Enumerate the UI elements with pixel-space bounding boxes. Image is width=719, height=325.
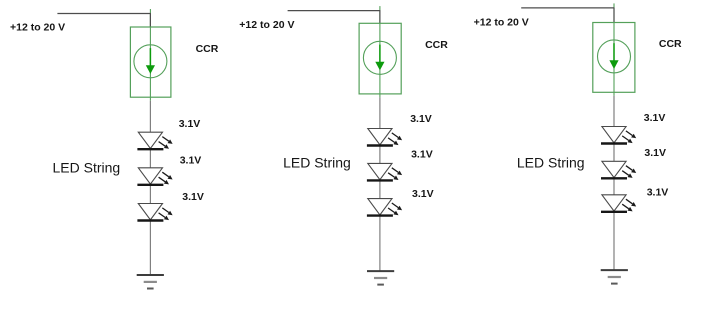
LED D33 (601, 195, 636, 212)
LED D32 (601, 161, 636, 178)
LED D21 (367, 129, 402, 146)
CCR U2 current arrow (375, 45, 384, 71)
CCR U2 body rectangle (359, 23, 401, 94)
svg-text:3.1V: 3.1V (410, 113, 432, 125)
CCR U1 current-source circle (134, 45, 167, 78)
CCR U3 current arrow (609, 43, 618, 69)
svg-text:3.1V: 3.1V (180, 154, 202, 166)
CCR U3 body rectangle (593, 23, 635, 93)
svg-text:3.1V: 3.1V (647, 187, 669, 199)
wire +V supply rail circuit 3 (521, 7, 614, 9)
svg-text:+12 to 20 V: +12 to 20 V (10, 21, 65, 33)
LED D12 (137, 168, 172, 185)
svg-text:3.1V: 3.1V (411, 149, 433, 161)
LED D22 (367, 163, 402, 180)
CCR U3 vertical lead (613, 3, 615, 95)
CCR U3 current-source circle (598, 40, 631, 73)
wire CCR output to LED string and ground circuit 2 (379, 97, 381, 271)
svg-text:3.1V: 3.1V (179, 118, 201, 130)
LED D23 (367, 199, 402, 216)
wire CCR output to LED string and ground circuit 3 (613, 96, 615, 270)
svg-text:+12 to 20 V: +12 to 20 V (474, 17, 529, 29)
CCR U2 vertical lead (379, 6, 381, 97)
wire supply drop to CCR circuit 1 (149, 14, 151, 28)
svg-text:+12 to 20 V: +12 to 20 V (239, 19, 294, 31)
svg-text:3.1V: 3.1V (644, 112, 666, 124)
svg-text:3.1V: 3.1V (182, 191, 204, 203)
CCR U1 current arrow (146, 48, 155, 74)
svg-text:CCR: CCR (196, 43, 219, 55)
svg-text:LED String: LED String (283, 155, 351, 171)
LED D31 (601, 127, 636, 144)
svg-text:LED String: LED String (53, 160, 121, 176)
wire +V supply rail circuit 2 (288, 10, 381, 12)
svg-text:3.1V: 3.1V (644, 147, 666, 159)
LED D13 (137, 204, 172, 221)
LED D11 (137, 132, 172, 149)
CCR U1 vertical lead (149, 9, 151, 101)
ground circuit 1 (137, 275, 164, 289)
ground circuit 2 (367, 271, 394, 285)
svg-text:3.1V: 3.1V (412, 188, 434, 200)
wire +V supply rail circuit 1 (57, 13, 150, 15)
CCR U2 current-source circle (363, 41, 396, 74)
wire supply drop to CCR circuit 3 (613, 8, 615, 23)
CCR U1 body rectangle (130, 27, 171, 97)
svg-text:LED String: LED String (517, 154, 585, 170)
svg-text:CCR: CCR (425, 39, 448, 51)
wire CCR output to LED string and ground circuit 1 (149, 101, 151, 275)
svg-text:CCR: CCR (659, 38, 682, 50)
ground circuit 3 (601, 270, 628, 284)
wire supply drop to CCR circuit 2 (379, 11, 381, 24)
